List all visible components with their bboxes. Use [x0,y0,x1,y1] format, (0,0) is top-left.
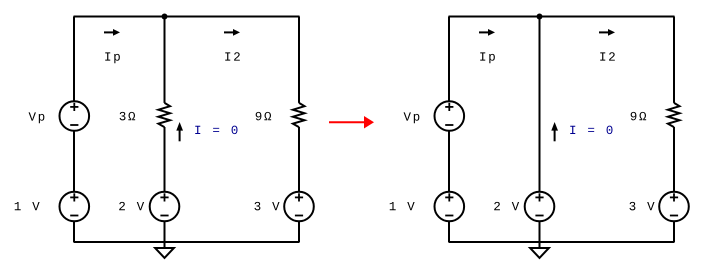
current arrow for Ip right circuit [479,29,495,36]
voltage source Vp [60,101,90,131]
resistor 9ohm [293,103,305,127]
wire left branch upper [73,17,75,102]
voltage source 3V [284,192,314,222]
ground [155,242,174,258]
label 3 V right circuit [629,202,654,210]
red transform arrow [329,116,374,129]
label 3 V [254,202,279,210]
label 9ohm [256,112,271,120]
label 3ohm [120,112,136,120]
current arrow for I2 [224,29,240,36]
wire top [74,16,300,18]
resistor 3ohm [158,103,170,127]
node junction dot [162,14,168,20]
wire middle branch lower [164,222,166,242]
current arrow I=0 right circuit [551,122,558,141]
wire right branch upper right circuit [673,17,675,103]
ground right circuit [530,242,549,258]
wire right branch middle [298,127,300,192]
node junction dot right circuit [537,14,543,20]
label 2 V [119,202,144,210]
wire right branch middle right circuit [673,127,675,192]
current arrow I=0 [176,122,183,141]
voltage source Vp right circuit [435,101,465,131]
wire middle branch middle [164,127,166,192]
voltage source 2V [150,192,180,222]
current arrow for I2 right circuit [599,29,615,36]
wire left branch lower right circuit [448,222,450,242]
wire right branch lower [298,222,300,242]
wire left branch upper right circuit [448,17,450,102]
label I2 [225,52,240,60]
label Ip right circuit [480,52,495,63]
label Vp right circuit [404,112,420,123]
voltage source 3V right circuit [659,192,689,222]
voltage source 2V right circuit [525,192,555,222]
wire middle branch right circuit [539,17,541,193]
wire middle branch lower right circuit [539,222,541,242]
wire right branch lower right circuit [673,222,675,242]
wire left branch middle [73,131,75,192]
wire bottom [74,241,300,243]
label I = 0 right circuit [570,126,612,134]
wire right branch upper [298,17,300,103]
wire bottom right circuit [449,241,675,243]
label 9ohm right circuit [631,112,646,120]
wire top right circuit [449,16,675,18]
label 2 V right circuit [494,202,519,210]
label I2 right circuit [600,52,615,60]
label I = 0 [195,126,237,134]
wire left branch middle right circuit [448,131,450,192]
current arrow for Ip [104,29,120,36]
resistor 9ohm right circuit [668,103,680,127]
label Vp [29,112,45,123]
label 1 V right circuit [390,202,415,210]
wire middle branch upper [164,17,166,103]
label 1 V [15,202,40,210]
label Ip [105,52,120,63]
voltage source 1V right circuit [435,192,465,222]
voltage source 1V [60,192,90,222]
wire left branch lower [73,222,75,242]
